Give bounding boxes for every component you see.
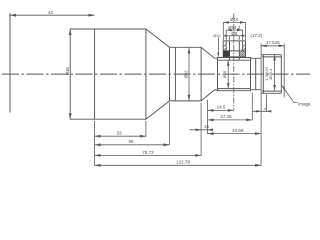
svg-text:(17.2): (17.2)	[250, 33, 262, 38]
ring mid step line	[223, 50, 245, 52]
svg-text:78.72: 78.72	[142, 150, 154, 155]
extension line x=207.6	[207, 100, 209, 134]
front bezel edge line	[94, 29, 96, 119]
collar bore lines	[218, 60, 251, 88]
dim phi14.2 line	[226, 30, 242, 40]
svg-text:Image: Image	[298, 101, 311, 106]
ring inner walls	[226, 41, 242, 56]
dim phi8 line	[230, 36, 240, 40]
svg-text:Ø25.4: Ø25.4	[268, 68, 273, 80]
svg-text:122.78: 122.78	[176, 160, 190, 165]
extension line x=169.5 below	[169, 103, 171, 146]
dim 15 arrows outside	[196, 129, 202, 132]
thread root lines	[262, 57, 281, 91]
cmount dim arrows	[273, 55, 276, 61]
svg-text:Ø10: Ø10	[213, 33, 221, 38]
mid barrel ring edge	[174, 47, 176, 101]
cone taper lower	[146, 101, 170, 119]
svg-text:33: 33	[116, 131, 122, 136]
front reference plane line	[9, 13, 11, 113]
mid barrel dim arrows	[188, 48, 191, 54]
rear chamfer upper	[201, 47, 217, 58]
dim 56 line	[95, 144, 170, 146]
dim phi16 line	[223, 22, 245, 40]
dim 27.26 arrows	[208, 119, 214, 122]
dim 56 arrows	[95, 143, 101, 146]
svg-text:Ø14.2: Ø14.2	[228, 25, 241, 30]
svg-text:34.69: 34.69	[232, 128, 244, 133]
dim 27.26 line	[208, 119, 253, 121]
dim 122.78 arrows	[95, 164, 101, 167]
phi8 arrows outside	[225, 35, 230, 37]
svg-text:15: 15	[204, 124, 210, 129]
phi10 leader	[218, 38, 220, 56]
extension line x=252.3	[251, 93, 253, 121]
dim 78.72 arrows	[95, 154, 101, 157]
port counterbore edges on collar	[230, 58, 240, 61]
svg-text:17.526: 17.526	[266, 40, 280, 45]
image plane line x=284.2	[283, 44, 285, 98]
groove between collar and thread	[251, 58, 262, 89]
dim 122.78 line	[95, 164, 262, 166]
dimension lines group	[95, 14, 298, 166]
main barrel body outline	[70, 29, 146, 119]
svg-text:Ø8: Ø8	[231, 31, 238, 36]
image leader line	[282, 86, 297, 102]
collar outline	[218, 58, 251, 91]
arrowheads	[10, 14, 285, 167]
cmount thread dim line	[274, 55, 276, 91]
ring left wall section fill	[223, 51, 229, 57]
cone taper upper	[146, 29, 170, 47]
port axis centerline	[233, 14, 235, 111]
svg-text:14.5: 14.5	[217, 105, 226, 110]
dim 42 arrows	[10, 14, 16, 17]
dim 34.69 arrows	[208, 132, 214, 135]
svg-text:Ø16: Ø16	[230, 17, 239, 22]
svg-text:Ø48: Ø48	[65, 67, 70, 75]
mid barrel outline	[170, 47, 202, 101]
dim 33 arrows	[95, 135, 101, 138]
dim 15 line	[190, 129, 214, 131]
extension line x=145.9 below box	[145, 121, 147, 137]
dim 33 line	[95, 135, 146, 137]
svg-text:42: 42	[48, 10, 54, 15]
svg-text:Ø42: Ø42	[184, 70, 189, 78]
dim 14.5 arrows	[208, 109, 214, 112]
dim 78.72 line	[95, 154, 202, 156]
svg-text:27.26: 27.26	[220, 114, 232, 119]
phi16 arrows	[223, 21, 229, 24]
dim 17.526 line	[261, 45, 284, 47]
phi14.2 arrows	[226, 29, 232, 32]
dim 14.5 line	[208, 109, 234, 111]
C-mount thread cylinder	[261, 55, 281, 94]
optical axis centerline	[2, 73, 310, 75]
svg-text:Ø16: Ø16	[222, 70, 227, 78]
rear chamfer lower	[201, 90, 217, 101]
exploded adapter ring outline	[223, 41, 245, 57]
extension line x=266.4	[265, 95, 267, 112]
svg-text:56: 56	[128, 139, 134, 144]
dim 4 line	[253, 110, 269, 112]
dimension 42 line	[10, 14, 95, 16]
collar bore dim arrows	[227, 60, 230, 65]
dim 17.526 arrows	[261, 45, 267, 48]
dim 4 outside arrows	[256, 110, 261, 112]
collar bore dim line	[227, 60, 229, 88]
phi48 arrows on box edge	[69, 29, 72, 35]
image leader arrowhead	[282, 85, 286, 89]
extension line x=94.6 below box	[94, 121, 96, 166]
extension line x=261.1 full	[260, 44, 262, 166]
extension line x=201.1 below	[200, 103, 202, 156]
dim 34.69 line	[208, 133, 262, 135]
ring right wall hatch	[223, 44, 245, 57]
mid barrel diameter dim line	[188, 48, 190, 101]
phi10 leader arrow	[217, 53, 219, 57]
